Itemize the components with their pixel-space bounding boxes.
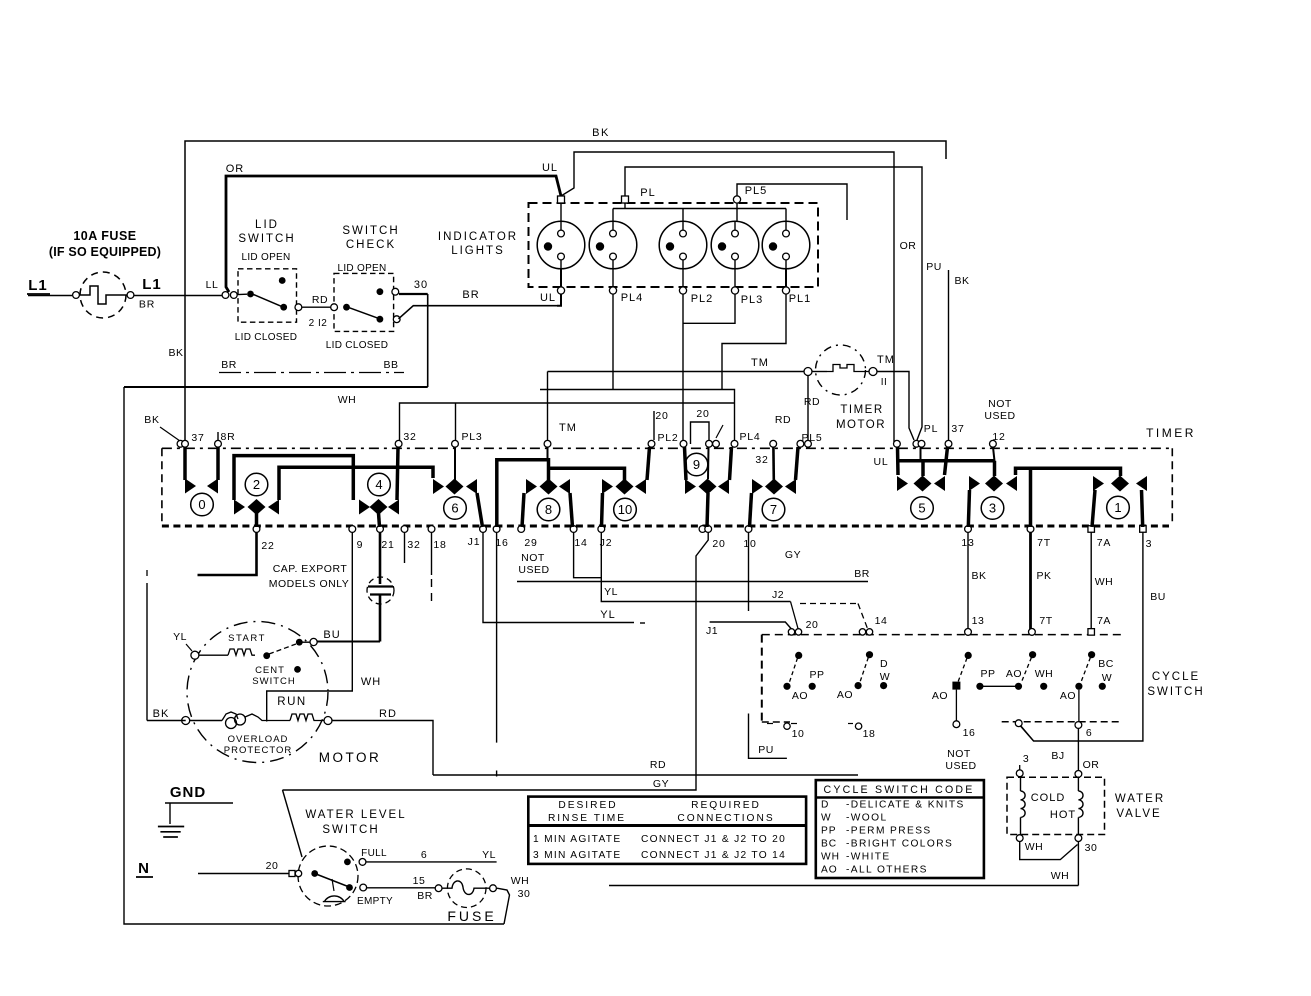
wire switch check lower to UL lamp (BR) [399,306,558,319]
svg-text:2: 2 [253,477,260,492]
wire fuse out down to neutral [497,888,510,924]
svg-text:OR: OR [226,163,245,175]
svg-text:37: 37 [951,423,964,435]
wire valve WH jumper [1020,842,1078,860]
svg-text:AO: AO [1006,668,1022,680]
timer pin 14 [570,526,577,533]
svg-text:15: 15 [413,875,426,887]
svg-text:BK: BK [592,127,610,139]
motor YL terminal [191,651,199,659]
pressure dome [323,896,346,902]
contact FULL [344,859,351,866]
timer pin PU [918,440,925,447]
svg-text:3 MIN AGITATE: 3 MIN AGITATE [533,850,621,861]
svg-text:D: D [821,800,829,811]
timer pin 20d [705,526,712,533]
svg-text:PU: PU [926,261,942,273]
wire pin 20 GY down [283,532,709,790]
cycle pin 10 [784,723,790,729]
svg-text:BJ: BJ [1051,750,1064,762]
svg-text:RD: RD [312,294,328,306]
svg-text:14: 14 [875,615,888,627]
svg-text:J2: J2 [772,589,784,601]
svg-text:VALVE: VALVE [1116,808,1161,820]
fuse right terminal [127,292,134,299]
fuse left terminal [73,292,80,299]
svg-text:(IF SO EQUIPPED): (IF SO EQUIPPED) [49,245,161,259]
wire BK left vertical to motor [146,583,148,721]
svg-text:6: 6 [421,849,427,861]
wire EMPTY to fuse [367,887,435,889]
svg-text:PL4: PL4 [739,431,760,443]
svg-text:SWITCH: SWITCH [252,676,295,687]
water level switch arm [315,874,348,887]
pin PL4 bottom [609,287,616,294]
lid switch closed contact [280,304,287,311]
svg-text:WATER: WATER [1115,793,1165,805]
svg-text:PL2: PL2 [657,432,678,444]
wire J2 to 20 pin [791,602,799,629]
LL terminal 2 [230,292,237,299]
timer pin PL4 [731,440,738,447]
svg-text:20: 20 [655,410,668,422]
timer contact 1 [1029,468,1033,527]
svg-text:UL: UL [542,162,558,174]
wire pin 7A down [1090,532,1092,629]
svg-text:WH: WH [338,394,357,406]
svg-text:II: II [881,377,888,388]
svg-text:PROTECTOR: PROTECTOR [224,745,292,756]
timer pin 37R [945,440,952,447]
wire BK right vertical to timer [948,270,950,442]
svg-text:LID OPEN: LID OPEN [241,252,290,263]
cycle pin 16 [953,721,960,728]
lamp bottom leads to box pins [560,269,562,288]
wire BR run [517,581,868,583]
timer contact 8 [497,460,549,527]
svg-text:-PERM PRESS: -PERM PRESS [846,826,932,837]
svg-text:TM: TM [751,357,769,369]
svg-text:7T: 7T [1037,537,1051,549]
wire pin 16 down toward YL water level line (broken in scan) [496,532,498,743]
wire J2 run [601,532,790,602]
lid switch SW1 dashed box [238,269,297,322]
svg-text:BR: BR [854,568,870,580]
indicator lamp PL2 lamp [659,221,707,269]
svg-text:RD: RD [775,414,791,426]
timer contact 9 [685,447,687,480]
wire bottom run to left border [124,386,428,388]
svg-text:14: 14 [574,537,587,549]
svg-text:10: 10 [618,502,632,517]
svg-text:PP: PP [809,669,824,681]
switch check SW2 dashed box [334,273,394,331]
svg-text:CYCLE: CYCLE [1152,671,1200,683]
pin 8R stub [217,432,219,440]
timer pin TMout [913,440,920,447]
svg-text:AO: AO [932,690,948,702]
wire UL lamp to OR vertical [561,152,894,442]
wire left border / neutral run [124,387,504,924]
svg-text:30: 30 [518,888,531,900]
cycle switch dashed box [762,634,1121,636]
svg-text:TM: TM [877,354,895,366]
svg-text:PL: PL [924,423,938,435]
cycle pin 20b [795,629,801,635]
wire BK top run [185,141,946,444]
svg-text:20: 20 [806,619,819,631]
indicator lamp PL4 lamp [589,221,637,269]
timer pin 32c [401,526,408,533]
motor BU terminal [310,638,317,645]
svg-text:FUSE: FUSE [447,908,496,924]
timer pin 20a [706,440,713,447]
svg-text:BK: BK [954,275,969,287]
wire UL bottom to BR run [557,294,561,306]
svg-text:2 I2: 2 I2 [309,318,328,329]
svg-text:CONNECT J1 & J2 TO 14: CONNECT J1 & J2 TO 14 [641,850,786,861]
switch check open contact [377,288,384,295]
wire horizontal run to pin 32 [400,403,735,440]
svg-text:J1: J1 [468,536,481,548]
timer pin 8R [215,440,222,447]
timer pin 20b [713,440,720,447]
svg-text:9: 9 [693,457,700,472]
cycle contact 13 [965,652,972,659]
svg-text:32: 32 [403,431,416,443]
svg-text:BK: BK [971,570,986,582]
pin PL1 bottom [782,287,789,294]
wire PL5 stub right of lamps [737,184,847,220]
wire lid switch to switch check [302,306,331,308]
wire PL1 lamp route [722,294,786,390]
svg-text:1 MIN AGITATE: 1 MIN AGITATE [533,834,621,845]
svg-text:18: 18 [433,539,446,551]
svg-text:9: 9 [357,539,364,551]
wire RD timer motor left terminal down [807,376,809,440]
wire pin 14 jog [574,532,602,578]
svg-text:-DELICATE & KNITS: -DELICATE & KNITS [846,800,965,811]
timer pin 12 [990,440,997,447]
timer pin RD [805,440,812,447]
ground symbol [169,803,171,824]
cycle contact 20 [795,652,802,659]
timer motor right terminal [869,368,877,376]
svg-text:YL: YL [173,631,187,643]
contact EMPTY [346,884,353,891]
svg-text:WH: WH [511,875,530,887]
fuse F1 (10A) dashed housing [80,272,126,318]
svg-text:SWITCH: SWITCH [238,233,295,245]
svg-text:BC: BC [821,839,837,850]
svg-text:PP: PP [980,668,995,680]
wire pin 9 WH to motor [267,532,353,719]
svg-text:FULL: FULL [361,848,387,859]
wire RD run [433,774,858,776]
svg-text:-BRIGHT COLORS: -BRIGHT COLORS [846,839,953,850]
wire PL4 lamp down [612,294,614,390]
svg-text:USED: USED [518,564,549,576]
svg-text:16: 16 [495,537,508,549]
svg-text:EMPTY: EMPTY [357,896,393,907]
svg-text:RINSE TIME: RINSE TIME [548,813,626,824]
svg-text:16: 16 [963,727,976,739]
svg-text:RD: RD [650,759,666,771]
svg-text:USED: USED [945,760,976,772]
timer contact 2 [234,456,353,500]
pin PL5 [733,196,740,203]
svg-text:37: 37 [191,432,204,444]
wire FULL/YL [366,861,497,863]
water level terminal 20b [295,870,301,876]
wire RD from motor [332,721,433,776]
svg-text:BB: BB [383,359,398,371]
timer pin 7A [1088,526,1095,533]
fuse element [80,286,128,304]
wire 20 into water level switch [198,873,289,875]
timer pin PL3 [452,440,459,447]
svg-text:W: W [1102,672,1112,684]
timer pin 9 [349,526,356,533]
svg-text:13: 13 [972,615,985,627]
lamp bus inside box [613,208,786,210]
timer pin 20L [648,440,655,447]
svg-text:LID CLOSED: LID CLOSED [326,340,388,351]
svg-text:N: N [138,860,150,877]
cent switch contact [263,652,270,659]
svg-text:LIGHTS: LIGHTS [451,245,505,257]
wire pin 22 down [198,532,257,575]
cycle switch code table [816,780,984,878]
rinse time table [528,797,806,864]
wire BU to capacitor [317,641,380,643]
svg-text:CONNECTIONS: CONNECTIONS [677,813,774,824]
svg-text:MOTOR: MOTOR [319,750,382,765]
svg-text:UL: UL [873,456,888,468]
motor RD terminal [324,717,332,725]
svg-text:WH: WH [1051,870,1070,882]
svg-text:PL1: PL1 [789,293,812,305]
svg-text:8: 8 [545,502,552,517]
svg-text:PL3: PL3 [461,431,482,443]
fuse2 element [442,881,489,895]
svg-text:YL: YL [600,609,615,621]
timer contact 10 [549,468,625,480]
svg-text:3: 3 [989,501,996,516]
svg-text:NOT: NOT [947,748,971,760]
timer contact 5 [896,447,900,475]
svg-text:BR: BR [139,299,155,311]
switch check lower terminal [393,316,400,323]
svg-text:LID OPEN: LID OPEN [337,263,386,274]
wire PL4/PL1 horizontal run [540,390,735,441]
timer pin TM [544,440,551,447]
svg-text:DESIRED: DESIRED [558,800,617,811]
timer pin 10 [745,526,752,533]
wire fuse to lid switch LL [134,295,222,297]
svg-text:8R: 8R [220,431,235,443]
timer pin 21 [377,526,384,533]
cent switch arm [269,644,296,654]
svg-text:20: 20 [712,538,725,550]
svg-text:BK: BK [153,708,170,720]
svg-text:PL3: PL3 [741,294,764,306]
svg-text:W: W [880,671,890,683]
svg-text:LID: LID [255,219,279,231]
svg-text:10A FUSE: 10A FUSE [73,229,136,243]
svg-text:-ALL OTHERS: -ALL OTHERS [846,865,928,876]
valve terminal OR [1075,771,1082,778]
timer pin 37b [182,440,189,447]
timer motor left terminal [804,368,812,376]
wire PL3 pin drop [455,403,457,440]
timer pin PL5 [797,440,804,447]
svg-text:TIMER: TIMER [840,404,883,416]
terminal EMPTY [360,884,367,891]
wire pin 32 stub [404,532,406,563]
svg-text:WH: WH [821,852,840,863]
cycle pin 20a [788,629,794,635]
wire PU run: PL lamp pin up and across [625,167,922,440]
svg-text:7T: 7T [1039,615,1052,627]
valve terminal 30 [1075,835,1082,842]
svg-text:21: 21 [381,539,394,551]
svg-text:PU: PU [758,744,774,756]
svg-text:START: START [228,633,266,644]
fuse F2 dashed circle [447,869,486,908]
cycle contact 7T [1029,651,1036,658]
cycle pin BJ [1015,720,1022,727]
svg-text:BR: BR [462,289,479,301]
svg-text:MODELS ONLY: MODELS ONLY [269,578,350,590]
svg-text:-WOOL: -WOOL [846,813,888,824]
svg-text:7A: 7A [1097,537,1111,549]
LL terminal 1 [222,292,229,299]
svg-text:REQUIRED: REQUIRED [691,800,761,811]
valve terminal 3 [1016,770,1023,777]
switch check terminal 30 [392,288,399,295]
svg-text:INDICATOR: INDICATOR [438,231,518,243]
timer pin 20c [699,526,706,533]
timer contact 0 [183,447,187,480]
wire pin 6 down to valve [1077,728,1079,770]
cycle pin 14b [866,629,872,635]
wire pin 3 BU down [1021,532,1143,741]
water valve dashed box [1007,777,1105,834]
wire J1 run [483,532,634,623]
svg-text:32: 32 [407,539,420,551]
timer pin 18 [428,526,435,533]
capacitor C1 (export models) [379,532,382,584]
timer contact 6 [454,447,456,480]
timer pin 13 [965,526,972,533]
water level pivot [311,870,318,877]
svg-text:18: 18 [863,728,876,740]
fuse2 right terminal [490,885,497,892]
cent switch contact 2 [294,666,301,673]
svg-text:HOT: HOT [1050,809,1076,821]
svg-text:3: 3 [1146,538,1153,550]
svg-text:MOTOR: MOTOR [836,419,886,431]
timer pin 37a [177,440,184,447]
wire TM run [548,371,804,373]
wire 30 down to bottom run [399,293,428,295]
svg-text:BR: BR [221,359,237,371]
water level terminal 20a [289,871,295,877]
svg-text:LID CLOSED: LID CLOSED [235,332,297,343]
svg-text:PL2: PL2 [691,293,714,305]
timer motor coil element [827,365,869,372]
svg-text:6: 6 [1086,727,1092,739]
svg-text:SWITCH: SWITCH [1147,686,1204,698]
wire pin 18 stub [431,532,433,575]
svg-text:20: 20 [696,408,709,420]
overload protector [222,712,238,721]
cycle contact 14 [866,651,873,658]
svg-text:OVERLOAD: OVERLOAD [228,734,289,745]
wire valve 30 down [1077,842,1079,886]
svg-text:PL4: PL4 [621,292,644,304]
svg-text:AO: AO [1060,690,1076,702]
valve terminal WH [1016,835,1023,842]
pin PL [622,196,629,203]
svg-text:PL5: PL5 [745,185,768,197]
svg-text:UL: UL [540,292,556,304]
wire TM pin drop [547,372,549,441]
svg-text:TIMER: TIMER [1146,426,1196,440]
cycle pin 18 [855,723,861,729]
timer pin 22 [253,526,260,533]
wire PL3 lamp to WH vertical [683,294,735,323]
wire contact 13 to pin 16 [955,690,957,721]
pin UL bottom [557,287,564,294]
svg-text:L1: L1 [142,276,162,293]
svg-text:3: 3 [1023,753,1029,765]
lid switch common contact [247,291,254,298]
wire OR run (LL up and across to UL) [226,176,561,292]
timer contact 7 [772,447,775,480]
indicator lamp PL5 lamp [537,221,585,269]
svg-text:10: 10 [743,538,756,550]
motor start winding [199,654,228,656]
timer pin J2 [598,526,605,533]
svg-text:BU: BU [1150,591,1166,603]
svg-text:WH: WH [1035,668,1054,680]
svg-text:GY: GY [785,549,801,561]
wire WH branch into motor [266,719,268,722]
svg-text:6: 6 [451,501,458,516]
svg-text:YL: YL [604,586,618,598]
pin PL2 bottom [679,287,686,294]
timer pin 29 [518,526,525,533]
svg-text:OR: OR [1083,759,1100,771]
svg-text:30: 30 [414,279,428,291]
cycle pin 6 [1075,722,1082,729]
wire WH from PL2 lamp down to timer [682,294,684,440]
timer pin 3 [1140,526,1147,533]
svg-text:LL: LL [206,279,219,291]
wire WH long run [609,885,1078,887]
cycle contact 7A [1088,651,1095,658]
svg-text:GY: GY [653,778,669,790]
svg-text:NOT: NOT [988,398,1012,410]
svg-text:TM: TM [559,422,577,434]
cycle pin 7T [1029,629,1036,636]
svg-text:GND: GND [170,784,206,801]
svg-text:CHECK: CHECK [346,239,396,251]
svg-text:USED: USED [984,410,1015,422]
timer dashed outline [162,447,1169,449]
